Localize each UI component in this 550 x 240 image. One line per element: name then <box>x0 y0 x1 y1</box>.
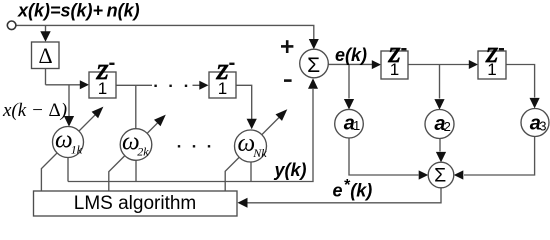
svg-text:x(k)=s(k)+ n(k): x(k)=s(k)+ n(k) <box>17 1 140 21</box>
arrowhead into summer S2 top <box>436 152 446 163</box>
weight circle w2k <box>120 129 152 161</box>
wire: y(k) bus to summer S1 minus input <box>68 89 313 182</box>
arrowhead of w2k adjust arrow <box>154 115 166 127</box>
svg-text:1k: 1k <box>71 143 83 157</box>
wire: segment before z2 arrow <box>193 84 201 86</box>
arrowhead into wNk <box>247 119 257 129</box>
svg-text:x(k − Δ): x(k − Δ) <box>2 100 67 121</box>
svg-text:1: 1 <box>390 60 399 79</box>
wire: LMS control line to w1k <box>41 115 95 191</box>
dots between w2k and wNk <box>178 145 180 147</box>
wire: drop into w1k <box>68 85 70 116</box>
wire: zR1 output <box>408 64 469 66</box>
svg-text:Δ: Δ <box>39 43 53 68</box>
delay block zR1 <box>381 34 408 79</box>
wire: delay output down <box>45 69 47 85</box>
wire: LMS control line to wNk <box>225 118 279 192</box>
svg-text:Σ: Σ <box>307 54 320 77</box>
wire: a1 output to summer S2 <box>349 138 419 175</box>
arrowhead into a1 <box>344 99 354 110</box>
svg-text:1: 1 <box>98 79 107 98</box>
wire: summer S1 output e(k) <box>328 63 372 65</box>
svg-text:1: 1 <box>487 60 496 79</box>
coefficient circle a2 <box>425 110 454 139</box>
wire: drop into a2 <box>439 65 441 99</box>
arrowhead into a2 <box>434 99 444 110</box>
svg-text:LMS algorithm: LMS algorithm <box>74 193 197 214</box>
arrowhead into a3 <box>530 98 540 109</box>
summer S1 <box>300 49 329 78</box>
wire: z1 output <box>116 84 152 86</box>
svg-text:3: 3 <box>539 119 546 134</box>
svg-text:1: 1 <box>353 118 360 133</box>
wire: tap line toward z1 <box>46 84 81 86</box>
arrowhead into LMS box (error input) <box>238 198 248 208</box>
arrowhead into summer S1 top <box>309 39 319 49</box>
wire: z2 output to corner and drop into wNk <box>236 85 252 119</box>
wire: LMS control line to w2k <box>109 123 158 191</box>
weight circle wNk <box>235 130 268 162</box>
svg-text:2: 2 <box>444 119 451 134</box>
arrowhead into zR2 <box>469 60 478 69</box>
arrowhead into z2 <box>199 81 208 90</box>
svg-text:1: 1 <box>218 79 227 98</box>
wire: drop into w2k <box>135 85 137 129</box>
wire: a3 output to summer S2 <box>464 137 535 176</box>
wire: input node to summer S1 (top wire) <box>16 25 314 39</box>
arrowhead into summer S2 left <box>419 170 429 179</box>
svg-text:e(k): e(k) <box>335 45 367 65</box>
arrowhead of wNk adjust arrow <box>276 109 288 121</box>
coefficient circle a3 <box>521 109 549 137</box>
dots between z1 and z2 <box>154 85 156 87</box>
svg-text:2k: 2k <box>137 145 149 159</box>
wire: zR2 output to corner and drop into a3 <box>506 65 535 98</box>
delay block z1 <box>89 51 116 98</box>
arrowhead into z1 <box>80 80 89 89</box>
arrowhead into delay block <box>40 31 50 42</box>
wire: summer S2 output to LMS box <box>247 188 441 203</box>
wire: w1k output drop to bus <box>67 158 69 182</box>
delay block D <box>32 42 60 69</box>
wire: w2k output drop to bus <box>135 160 137 181</box>
coefficient circle a1 <box>335 109 364 138</box>
delay block z2 <box>209 51 236 98</box>
minus sign at S1 <box>284 79 292 82</box>
input node circle <box>7 21 16 30</box>
LMS algorithm box <box>34 191 238 216</box>
svg-text:Nk: Nk <box>252 146 267 160</box>
plus sign at S1 <box>281 40 293 53</box>
arrowhead of w1k adjust arrow <box>92 107 104 119</box>
wire: branch down to delay block <box>45 25 47 31</box>
delay block zR2 <box>478 34 506 79</box>
arrowhead into summer S1 bottom (minus input) <box>308 78 318 89</box>
wire: drop into a1 <box>348 64 350 98</box>
arrowhead into summer S2 right <box>454 170 464 179</box>
wire: a2 output down to summer S2 <box>439 139 441 152</box>
svg-text:Σ: Σ <box>434 165 446 187</box>
arrowhead into zR1 <box>372 60 381 69</box>
summer S2 <box>428 162 454 188</box>
wire: wNk output drop to bus <box>250 162 252 182</box>
weight circle w1k <box>53 127 84 158</box>
arrowhead into w1k <box>64 116 74 127</box>
svg-text:e*(k): e*(k) <box>333 177 373 201</box>
svg-text:y(k): y(k) <box>274 160 307 180</box>
